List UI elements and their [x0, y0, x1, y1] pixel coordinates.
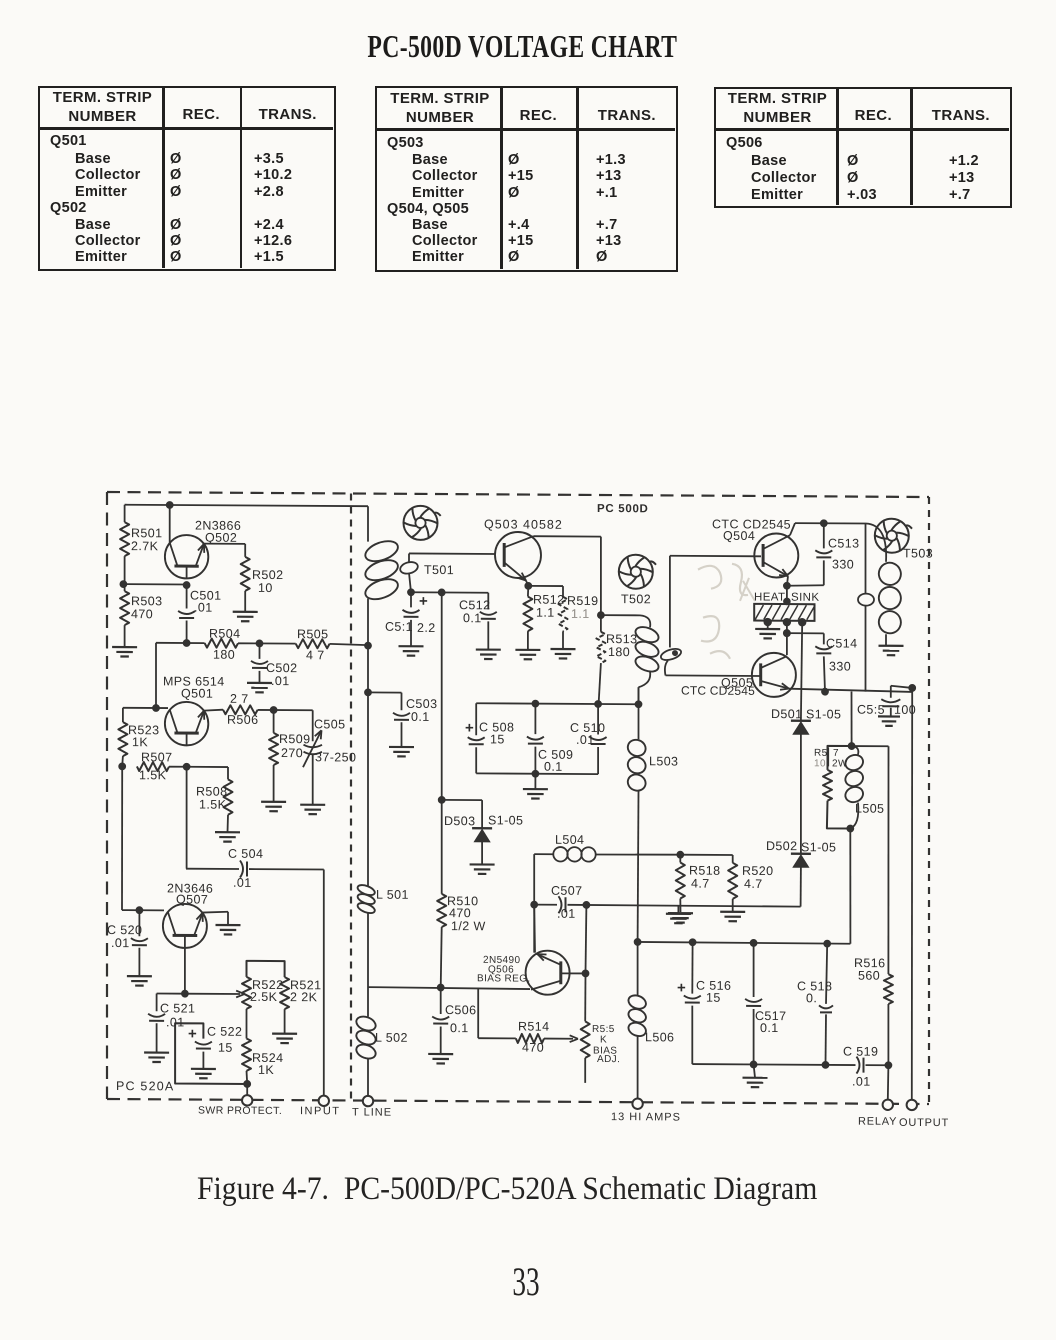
svg-text:+: + [677, 979, 686, 996]
svg-text:C 504: C 504 [228, 847, 263, 861]
svg-text:R505: R505 [297, 627, 328, 641]
svg-text:0.: 0. [806, 991, 817, 1005]
svg-text:+: + [188, 1025, 197, 1042]
svg-text:Q501: Q501 [181, 686, 213, 700]
svg-text:R5:5: R5:5 [592, 1024, 615, 1035]
svg-text:1K: 1K [258, 1063, 274, 1077]
svg-text:4.7: 4.7 [744, 877, 763, 891]
svg-text:L503: L503 [649, 754, 678, 768]
svg-text:1.5K: 1.5K [139, 768, 167, 782]
svg-text:.01: .01 [576, 733, 595, 747]
svg-text:CTC CD2545: CTC CD2545 [681, 684, 755, 698]
svg-text:470: 470 [522, 1041, 544, 1055]
svg-text:10: 10 [814, 758, 826, 769]
svg-text:T503: T503 [903, 546, 933, 560]
svg-text:S1-05: S1-05 [801, 840, 836, 854]
svg-text:SWR PROTECT.: SWR PROTECT. [198, 1105, 282, 1118]
svg-text:L504: L504 [555, 833, 584, 847]
svg-text:L 502: L 502 [375, 1031, 408, 1045]
svg-text:C 519: C 519 [843, 1044, 878, 1058]
svg-text:4.7: 4.7 [691, 877, 710, 891]
svg-text:C513: C513 [828, 536, 859, 550]
svg-text:T502: T502 [621, 592, 651, 606]
svg-text:560: 560 [858, 969, 880, 983]
svg-text:1/2 W: 1/2 W [451, 919, 486, 933]
svg-text:PC 520A: PC 520A [116, 1079, 174, 1093]
svg-text:.01: .01 [852, 1075, 871, 1089]
svg-text:T LINE: T LINE [352, 1106, 392, 1118]
svg-text:S1-05: S1-05 [488, 813, 523, 827]
svg-text:C506: C506 [445, 1003, 476, 1017]
svg-text:L506: L506 [645, 1030, 674, 1044]
svg-text:.01: .01 [166, 1015, 185, 1029]
svg-text:Q507: Q507 [176, 892, 208, 906]
svg-text:37-250: 37-250 [315, 750, 356, 764]
svg-text:C 521: C 521 [160, 1001, 195, 1015]
svg-text:C 522: C 522 [207, 1025, 242, 1039]
svg-text:+: + [465, 720, 474, 737]
svg-text:330: 330 [832, 557, 854, 571]
svg-text:Q502: Q502 [205, 531, 237, 545]
svg-text:L 501: L 501 [376, 888, 409, 902]
svg-text:7: 7 [833, 748, 839, 759]
svg-text:.01: .01 [557, 907, 576, 921]
svg-text:Q504: Q504 [723, 529, 755, 543]
svg-text:SINK: SINK [791, 592, 819, 604]
svg-text:4 7: 4 7 [306, 648, 325, 662]
svg-text:R509: R509 [279, 732, 310, 746]
svg-text:D501: D501 [771, 707, 802, 721]
svg-text:R506: R506 [227, 713, 258, 727]
svg-text:.01: .01 [233, 876, 252, 890]
svg-text:330: 330 [829, 659, 851, 673]
svg-text:2 2K: 2 2K [290, 990, 318, 1004]
svg-text:2.2: 2.2 [417, 621, 436, 635]
svg-text:PC 500D: PC 500D [597, 503, 649, 515]
svg-text:K: K [600, 1035, 607, 1046]
svg-text:0.1: 0.1 [544, 760, 563, 774]
svg-text:BIAS REG.: BIAS REG. [477, 973, 531, 984]
svg-text:1K: 1K [132, 735, 148, 749]
svg-text:RELAY: RELAY [858, 1116, 897, 1128]
svg-text:0.1: 0.1 [463, 611, 482, 625]
svg-text:2 7: 2 7 [230, 692, 249, 706]
svg-text:10: 10 [258, 581, 273, 595]
svg-text:C507: C507 [551, 884, 582, 898]
svg-text:S1-05: S1-05 [806, 707, 841, 721]
svg-text:1.5K: 1.5K [199, 798, 227, 812]
svg-text:C514: C514 [826, 636, 857, 650]
svg-text:2W: 2W [832, 758, 848, 769]
svg-text:.01: .01 [271, 674, 290, 688]
svg-text:D503: D503 [444, 814, 475, 828]
svg-text:2.7K: 2.7K [131, 539, 159, 553]
svg-text:15: 15 [706, 991, 721, 1005]
svg-text:2.5K: 2.5K [250, 990, 278, 1004]
svg-text:180: 180 [213, 648, 235, 662]
svg-text:T501: T501 [424, 563, 454, 577]
svg-text:0.1: 0.1 [411, 710, 430, 724]
svg-text:0.1: 0.1 [450, 1021, 469, 1035]
svg-text:C5:1: C5:1 [385, 620, 413, 634]
svg-text:.01: .01 [111, 936, 130, 950]
svg-text:R507: R507 [141, 750, 172, 764]
svg-text:ADJ.: ADJ. [597, 1054, 620, 1065]
svg-text:1.1: 1.1 [571, 607, 590, 621]
svg-text:0.1: 0.1 [760, 1021, 779, 1035]
svg-text:Q503 40582: Q503 40582 [484, 517, 563, 531]
svg-text:270: 270 [281, 746, 303, 760]
svg-text:OUTPUT: OUTPUT [899, 1117, 949, 1129]
svg-text:HEAT: HEAT [754, 591, 785, 603]
svg-text:.01: .01 [194, 601, 213, 615]
svg-text:R5: R5 [814, 748, 828, 759]
svg-text:1.1: 1.1 [536, 606, 555, 620]
svg-text:R504: R504 [209, 627, 240, 641]
svg-text:C505: C505 [314, 717, 345, 731]
svg-text:INPUT: INPUT [300, 1105, 340, 1117]
svg-text:100: 100 [894, 703, 916, 717]
svg-text:15: 15 [218, 1041, 233, 1055]
svg-text:R502: R502 [252, 568, 283, 582]
svg-text:+: + [419, 593, 428, 610]
svg-text:13 HI AMPS: 13 HI AMPS [611, 1111, 681, 1123]
svg-text:470: 470 [131, 607, 153, 621]
svg-text:15: 15 [490, 732, 505, 746]
svg-text:L505: L505 [855, 802, 884, 816]
svg-text:180: 180 [608, 645, 630, 659]
svg-text:R514: R514 [518, 1020, 549, 1034]
svg-text:470: 470 [449, 906, 471, 920]
svg-text:C5:5: C5:5 [857, 703, 885, 717]
svg-text:D502: D502 [766, 839, 797, 853]
